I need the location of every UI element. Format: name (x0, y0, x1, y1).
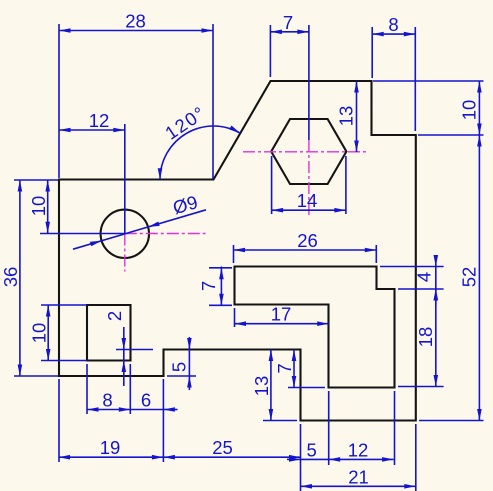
dimension 5 bottom (287, 439, 329, 461)
extension line x=124.8 circle center (124, 124, 126, 234)
svg-text:5: 5 (306, 439, 316, 460)
extension line x=163.4 bottom (162, 379, 164, 462)
extension line y=349.5 for dim 2 (116, 349, 153, 351)
dimension 120 degrees arc (158, 102, 241, 180)
extension line y=232.8 left to circle (40, 233, 125, 235)
extension line x=308.9 hex center top (308, 25, 310, 140)
circle horizontal centerline (125, 233, 206, 235)
svg-text:10: 10 (28, 196, 49, 217)
extension line y=179.5 left (14, 179, 58, 181)
hexagon hole (271, 119, 346, 184)
svg-text:8: 8 (388, 14, 398, 35)
svg-text:36: 36 (0, 267, 21, 288)
svg-text:4: 4 (414, 272, 435, 282)
svg-text:13: 13 (336, 106, 357, 127)
dimension 18 (415, 289, 438, 387)
dimension 8 top (372, 14, 415, 36)
dimension 25 (163, 437, 300, 459)
dimension 7 slot left (198, 267, 224, 306)
hexagon horizontal centerline (243, 151, 367, 153)
extension line x=58.5 bottom (58, 379, 60, 462)
extension line x=345.9 hex right for 14 (345, 156, 347, 214)
dimension 17 (235, 304, 329, 326)
extension line x=394.5 bottom (394, 391, 396, 465)
internal rectangle hole (87, 305, 131, 361)
dimension 28 (59, 11, 213, 33)
svg-text:10: 10 (29, 323, 50, 344)
svg-text:21: 21 (348, 466, 369, 487)
svg-text:10: 10 (459, 100, 480, 121)
svg-text:2: 2 (104, 311, 125, 321)
extension line x=415.5 bottom (415, 424, 417, 491)
dimension 10 right (459, 81, 482, 135)
dimension 12 top left (59, 110, 125, 132)
extension line y=375.5 left (14, 375, 58, 377)
extension line y=267.8 left of slot for 7 (209, 267, 232, 269)
extension line x=87 below rect (86, 364, 88, 414)
dimension 13 bottom (251, 350, 273, 421)
svg-text:26: 26 (297, 230, 318, 251)
dimension 12 bottom (329, 439, 394, 461)
part outline (59, 81, 416, 421)
extension line y=386.5 right for dim 18 (398, 386, 444, 388)
dimension 36 (0, 180, 22, 376)
extension line x=415.3 (414, 27, 416, 131)
extension line y=376 for dim 5 (167, 375, 196, 377)
extension line y=81 right (373, 80, 484, 82)
svg-text:18: 18 (415, 327, 436, 348)
centerlines magenta (125, 140, 367, 272)
svg-text:5: 5 (169, 362, 190, 372)
extension line x=270.4 (269, 25, 271, 77)
dimension 7 bottom (274, 350, 296, 388)
extension line x=233.5 above slot (233, 245, 235, 263)
dimension D9 leader (73, 191, 206, 249)
extension line y=305.3 left of slot for 7 (209, 304, 232, 306)
circle hole D9 (101, 210, 149, 258)
dimension 21 (301, 466, 416, 488)
extension line y=420.5 right (419, 420, 484, 422)
dimension 19 (59, 437, 164, 459)
svg-text:28: 28 (125, 11, 146, 32)
svg-text:25: 25 (212, 437, 233, 458)
svg-text:17: 17 (271, 304, 292, 325)
extension line y=305 rect top (41, 304, 87, 306)
dimension 8 bottom (87, 390, 130, 412)
extension line y=387.5 left for dim 7 (288, 387, 325, 389)
extension line y=135 right (418, 134, 484, 136)
dimension 2 (104, 311, 126, 386)
extension line x=234.5 below slot for 17 (234, 308, 236, 327)
internal Z-shaped slot (235, 267, 395, 388)
dimension 52 (459, 135, 482, 421)
svg-text:12: 12 (89, 110, 110, 131)
svg-text:52: 52 (459, 267, 480, 288)
dimension 5 mid (169, 337, 192, 390)
dimension 4 (414, 255, 439, 305)
svg-text:8: 8 (102, 390, 112, 411)
svg-text:7: 7 (198, 281, 219, 291)
extension line x=212.7 (120 vertex) (212, 24, 214, 179)
extension line x=271.6 hex left for 14 (271, 156, 273, 214)
extension line x=372.2 (371, 27, 373, 78)
extension line x=300.5 bottom (300, 424, 302, 491)
dimension 7 top (270, 12, 309, 34)
svg-text:19: 19 (100, 437, 121, 458)
extension line x=58.5 top (58, 24, 60, 178)
dimension 14 hexagon (272, 190, 346, 212)
circle vertical centerline (124, 234, 126, 272)
svg-text:6: 6 (141, 390, 151, 411)
svg-text:14: 14 (297, 190, 318, 211)
extension line x=130.3 below rect (129, 364, 131, 414)
extension line y=289 right (398, 288, 444, 290)
svg-text:7: 7 (283, 12, 293, 33)
extension line y=266.5 right for dim 4 (380, 266, 444, 268)
extension line y=360.5 rect bottom (41, 360, 87, 362)
svg-text:12: 12 (348, 439, 369, 460)
dimension 10 left lower (29, 305, 51, 361)
extension line x=328.7 bottom (328, 391, 330, 465)
dimension 10 left upper (28, 180, 50, 233)
extension line y=420.5 left for dim 13 (263, 420, 297, 422)
dimension 13 hexagon (336, 81, 359, 152)
dimension 6 bottom (130, 390, 177, 412)
svg-text:7: 7 (274, 363, 295, 373)
hexagon vertical centerline (308, 140, 310, 215)
dimension 26 (234, 230, 377, 252)
extension line x=376.3 above slot (375, 245, 377, 263)
svg-text:13: 13 (251, 376, 272, 397)
